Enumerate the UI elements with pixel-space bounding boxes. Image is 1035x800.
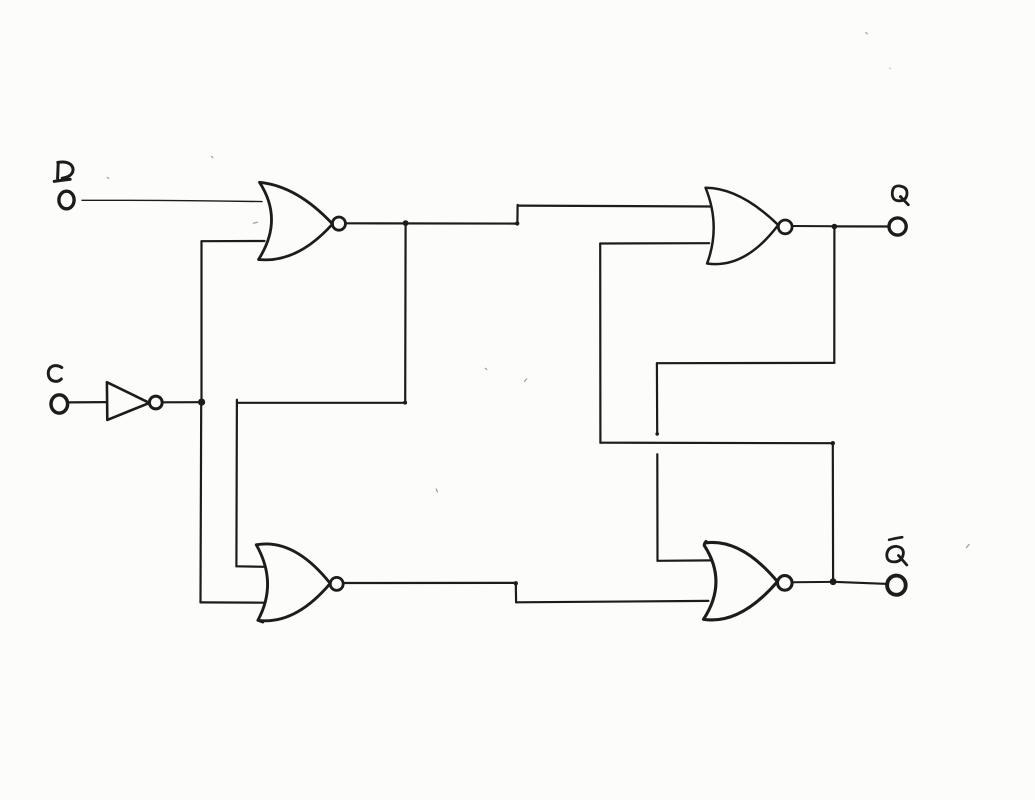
wire U2 output (793, 225, 835, 227)
speck marks (107, 33, 969, 548)
wire to terminal Q (834, 225, 888, 227)
wire D to U1 upper input (82, 200, 262, 201)
wire to U3 upper input (236, 565, 265, 568)
NOR gate U3 (256, 544, 330, 622)
junction node Q (832, 224, 838, 230)
NOR gate U4 (704, 542, 778, 620)
U2 output bubble (778, 220, 792, 234)
wire inverter to node C1 (163, 401, 199, 403)
wire to U2 lower input (600, 242, 709, 245)
wire down x657 upper piece (656, 363, 658, 434)
wire node QB up (832, 443, 834, 580)
blob end x657 (655, 432, 659, 436)
wire feedback left (237, 402, 405, 404)
wire jog up (516, 205, 518, 224)
label D (54, 162, 73, 181)
wire to U4 upper input (658, 559, 712, 562)
wire node C1 down (199, 404, 202, 603)
wire jog down (515, 583, 517, 602)
junction node N1 (403, 220, 409, 226)
wire to U4 lower input (516, 601, 708, 602)
wire U3 output (344, 582, 516, 584)
label QB overbar (889, 537, 902, 540)
wire C to inverter (69, 401, 107, 403)
U4 output bubble (778, 576, 793, 591)
corner blob jog2 (514, 581, 518, 585)
wire cross left y443 (600, 442, 832, 445)
inverter bubble (149, 396, 162, 409)
wire node Q down (833, 227, 835, 363)
label C (48, 366, 62, 382)
corner blob (515, 221, 519, 225)
terminal D (59, 191, 74, 209)
wire to U3 lower input (201, 601, 265, 603)
wire down x237 (235, 400, 238, 567)
U3 output bubble (330, 577, 343, 590)
inverter U5 (107, 382, 149, 420)
wire to terminal QB (833, 582, 885, 584)
terminal C (51, 395, 68, 413)
U1 output bubble (332, 217, 345, 230)
terminal QB (887, 576, 906, 595)
wire up x600 (599, 244, 601, 443)
wire to U2 upper input (518, 205, 711, 208)
wire down x657 lower piece (656, 454, 658, 561)
wire U4 output (793, 581, 833, 583)
terminal Q (889, 218, 906, 235)
wire N1 down (404, 223, 407, 403)
wire cross left y363 (657, 362, 834, 365)
label Q (892, 186, 908, 205)
NOR gate U1 (259, 182, 333, 260)
junction node C1 (198, 399, 205, 406)
corner blob QB (831, 441, 835, 445)
wire to U1 lower input (202, 240, 265, 242)
junction node QB (830, 578, 837, 585)
NOR gate U2 (706, 188, 779, 264)
wire node C1 up (200, 241, 202, 400)
label QB letter Q (887, 546, 907, 565)
label Q inner dot (899, 196, 902, 199)
wire U1 output (346, 222, 518, 225)
corner blob N1 bottom (403, 401, 407, 405)
